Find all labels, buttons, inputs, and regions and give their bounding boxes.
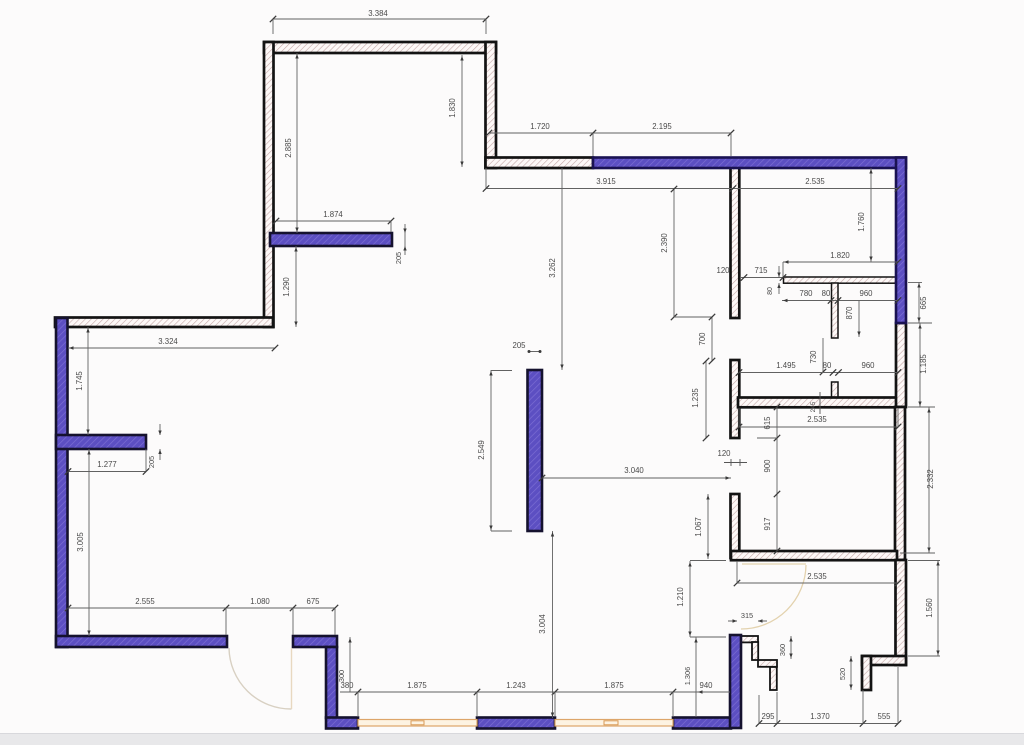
svg-text:3.915: 3.915 [596,177,616,186]
wall thin partition top-right room [784,277,899,283]
svg-text:940: 940 [699,681,713,690]
wall blue bottom-left horizontal [56,636,227,647]
svg-text:1.875: 1.875 [604,681,624,690]
dimension 120 wall marker [717,449,747,466]
svg-text:900: 900 [763,459,772,473]
dimension 2.549 center wall [477,370,512,531]
dimension 700 [698,314,715,364]
dimension 665 right side [908,282,928,323]
dimension 1.185 right side [908,323,932,407]
dimension bottom row 380 1.875 1.243 1.875 940 [340,681,730,717]
wall left of upper-left room [264,42,274,327]
wall right vertical upper-hatched [896,323,906,407]
wall blue center free-standing [528,370,543,531]
wall step vertical bottom-right [862,656,871,690]
wall blue left outer [56,318,68,647]
wall blue shelf in upper-left room [270,233,392,246]
wall blue right vertical upper [896,158,906,324]
svg-text:917: 917 [763,517,772,530]
svg-text:1.290: 1.290 [282,277,291,297]
dimension 3.262 hall height [548,168,564,370]
svg-text:1.875: 1.875 [407,681,427,690]
svg-text:2.535: 2.535 [807,415,827,424]
wall right vertical middle [895,407,905,560]
wall horizontal lower-right room top [731,551,897,560]
svg-text:1.874: 1.874 [323,210,343,219]
wall small step D near door [770,667,777,690]
wall interior vertical segment 3 [731,494,740,558]
dimension 520 step [838,656,853,690]
dimension 730 [809,338,826,375]
svg-text:3.262: 3.262 [548,258,557,278]
svg-text:1.210: 1.210 [676,587,685,607]
wall small step C near door [758,660,777,667]
dimension 205 left shelf thickness [147,424,162,468]
svg-text:2.332: 2.332 [926,469,935,489]
svg-text:3.324: 3.324 [158,337,178,346]
wall right of upper-left room [486,42,497,168]
svg-text:555: 555 [877,712,891,721]
wall T-stem partition [832,283,839,338]
dimension 245 wall thickness small [810,392,820,414]
svg-text:1.080: 1.080 [250,597,270,606]
wall horizontal band upper-left [55,318,273,328]
svg-text:960: 960 [859,289,873,298]
svg-text:3.040: 3.040 [624,466,644,475]
svg-text:1.067: 1.067 [694,517,703,537]
svg-text:1.235: 1.235 [691,388,700,408]
dimension 2.555 1.080 675 row [65,597,338,635]
svg-text:1.720: 1.720 [530,122,550,131]
dimension 1.830 right room [448,55,464,167]
wall small step A near door [739,636,758,642]
dimension 3.004 [538,531,554,718]
svg-text:1.495: 1.495 [776,361,796,370]
dimension 1.874 shelf [273,210,394,232]
wall interior vertical segment 1 [731,166,740,318]
svg-text:205: 205 [394,252,403,264]
svg-text:870: 870 [845,306,854,320]
wall blue bottom-right vertical [730,635,741,728]
dimension 2.332 right side [900,407,935,553]
svg-text:120: 120 [716,266,730,275]
dimension 3.384 top [270,9,489,34]
svg-text:1.760: 1.760 [857,212,866,232]
svg-text:615: 615 [763,416,772,430]
dimension 615 900 917 column [757,404,780,554]
window right in bottom wall [555,720,673,727]
dimension 1.560 right side [908,560,940,656]
dimension 315 step [728,611,767,623]
dimension 1.745 [75,327,90,435]
dimension 1.720 and 2.195 top of hall [486,122,734,156]
bottom gray strip [0,734,1024,745]
svg-text:700: 700 [698,332,707,346]
svg-text:300: 300 [337,670,346,682]
svg-text:80: 80 [822,289,831,298]
svg-text:295: 295 [761,712,775,721]
wall blue bottom segment 1 [326,718,358,729]
svg-text:520: 520 [838,668,847,680]
svg-text:1.243: 1.243 [506,681,526,690]
svg-text:1.277: 1.277 [97,460,117,469]
svg-text:675: 675 [306,597,320,606]
svg-text:2.885: 2.885 [284,138,293,158]
svg-text:1.185: 1.185 [919,354,928,374]
wall blue bottom segment 3 [673,718,731,729]
svg-text:1.560: 1.560 [925,598,934,618]
dimension 80 partition thickness [767,266,781,295]
dimension 1.306 [683,637,718,717]
svg-text:80: 80 [823,361,832,370]
svg-text:1.370: 1.370 [810,712,830,721]
svg-text:2.549: 2.549 [477,440,486,460]
wall blue top of hall [593,158,906,169]
dimension 3.005 [76,449,91,636]
svg-text:3.005: 3.005 [76,532,85,552]
svg-text:715: 715 [754,266,768,275]
svg-text:3.384: 3.384 [368,9,388,18]
wall stub partition [832,382,839,398]
wall top of upper-left room [264,42,496,53]
dimension 3.040 [539,466,731,481]
wall small step B near door [752,642,758,660]
dimension 205 shelf thickness [394,224,407,264]
wall blue corner vertical [326,647,337,718]
svg-text:245: 245 [810,401,817,412]
wall blue shelf left [56,435,146,449]
svg-text:205: 205 [147,456,156,468]
svg-text:315: 315 [741,611,753,620]
svg-text:665: 665 [919,296,928,310]
svg-text:80: 80 [767,287,774,295]
dimension 1.495 80 960 row [736,361,901,376]
svg-text:1.830: 1.830 [448,98,457,118]
dimension 2.535 lower-right room [734,561,901,586]
wall interior vertical segment 2 [731,360,740,438]
wall blue bottom segment 2 [477,718,555,729]
dimension 2.535 mid-right room [736,408,901,430]
svg-text:2.555: 2.555 [135,597,155,606]
wall blue bottom horizontal right of door [293,636,337,647]
svg-text:3.004: 3.004 [538,614,547,634]
dimension 1.067 [694,494,710,559]
dimension 205 center wall thickness [512,341,541,353]
dimension 3.915 and 2.535 hall width [483,168,901,192]
dimension 360 step [778,636,793,659]
dimension 1.760 top-right room [857,168,873,262]
svg-text:120: 120 [717,449,731,458]
door arc lower-right room [741,564,806,629]
svg-text:2.390: 2.390 [660,233,669,253]
wall hatched segment left part of hall top wall [486,158,594,169]
svg-text:2.535: 2.535 [807,572,827,581]
dimension 1.277 [65,449,149,475]
dimension 2.390 [660,186,712,320]
dimension 1.290 [282,246,298,327]
door arc bottom-left [229,648,292,709]
dimension 870 [845,301,861,338]
dimension 120 and 715 partition [716,266,786,281]
svg-text:2.535: 2.535 [805,177,825,186]
svg-text:1.306: 1.306 [683,667,692,686]
dimension 295 1.370 555 bottom-right row [756,667,901,727]
wall right vertical lower [896,560,907,665]
svg-text:730: 730 [809,350,818,364]
svg-text:205: 205 [512,341,526,350]
svg-text:960: 960 [861,361,875,370]
dimension 300 bottom-left [337,637,352,692]
wall horizontal mid-right [738,398,905,408]
dimension 780 80 960 row [782,289,901,304]
svg-text:780: 780 [799,289,813,298]
dimension 1.210 door opening [676,561,726,638]
svg-text:1.820: 1.820 [830,251,850,260]
wall step horizontal bottom-right [862,656,906,665]
svg-text:360: 360 [778,644,787,656]
svg-text:1.745: 1.745 [75,371,84,391]
svg-text:2.195: 2.195 [652,122,672,131]
window left in bottom wall [358,720,477,727]
dimension 1.820 [783,251,901,277]
dimension 3.324 [68,337,278,351]
dimension 2.885 left room [284,53,299,233]
dimension 1.235 [691,358,709,441]
